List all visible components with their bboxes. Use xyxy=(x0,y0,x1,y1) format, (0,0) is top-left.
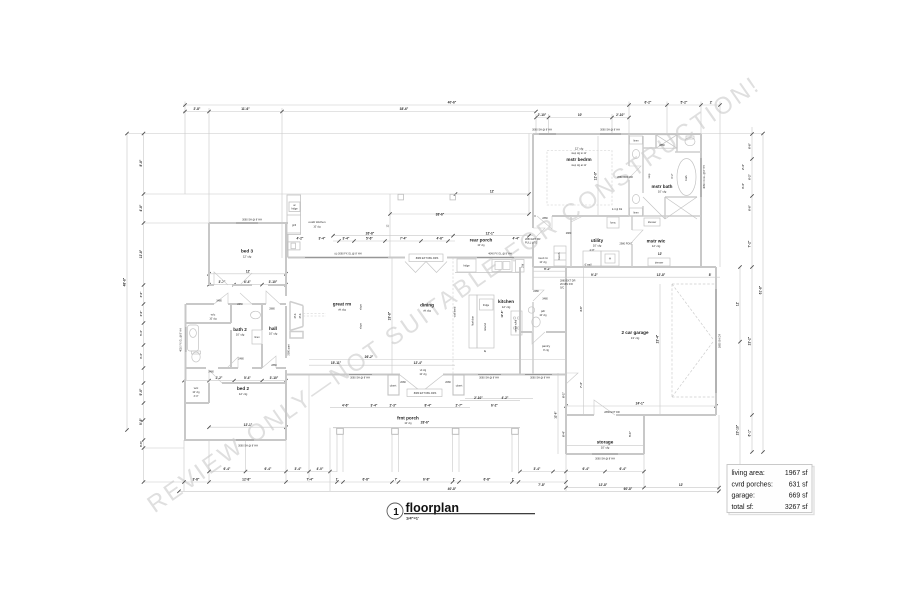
svg-text:12'-8": 12'-8" xyxy=(599,483,608,487)
dimension texts bottom xyxy=(193,467,684,491)
dresser wic top xyxy=(644,218,660,226)
range xyxy=(511,311,522,335)
entry closets xyxy=(388,375,464,395)
door hall top xyxy=(266,291,280,304)
svg-text:10' clg: 10' clg xyxy=(477,244,485,247)
svg-text:8': 8' xyxy=(709,273,712,277)
svg-text:(x) 3060 FX GL @ 8' HH: (x) 3060 FX GL @ 8' HH xyxy=(334,253,361,256)
svg-text:step clg at 11': step clg at 11' xyxy=(571,164,587,167)
svg-text:3060 SH @ 8' HH: 3060 SH @ 8' HH xyxy=(479,377,499,380)
glass wall xyxy=(643,197,665,219)
svg-text:fridge: fridge xyxy=(463,265,470,268)
svg-text:40'-8": 40'-8" xyxy=(448,487,457,491)
svg-text:2880: 2880 xyxy=(271,364,277,367)
svg-text:7': 7' xyxy=(395,478,398,482)
uc fridge box xyxy=(289,202,300,212)
svg-text:2480: 2480 xyxy=(237,303,243,306)
title circle xyxy=(387,503,403,519)
svg-text:grill: grill xyxy=(292,224,296,227)
svg-text:2'-4": 2'-4" xyxy=(741,163,745,170)
window master north 1 xyxy=(539,133,556,135)
svg-text:12': 12' xyxy=(490,190,495,194)
wall utility south / garage north xyxy=(533,266,716,268)
window storage south xyxy=(592,453,618,455)
door wc2 xyxy=(227,357,238,368)
sink master 1 xyxy=(632,150,639,159)
svg-text:12' clg: 12' clg xyxy=(239,392,248,396)
svg-text:10' clg: 10' clg xyxy=(269,332,278,336)
svg-text:23'-10": 23'-10" xyxy=(736,424,740,435)
svg-text:12'-1": 12'-1" xyxy=(244,423,253,427)
svg-text:10' clg: 10' clg xyxy=(593,244,602,248)
svg-text:pdr: pdr xyxy=(541,309,545,313)
utility appliances xyxy=(455,217,670,348)
furnace closet xyxy=(607,217,619,228)
right dim col outer xyxy=(762,134,764,453)
bottom extension lines xyxy=(183,440,185,491)
toilet master xyxy=(685,137,695,145)
svg-text:2880: 2880 xyxy=(566,232,572,235)
wall wc south xyxy=(186,322,231,324)
svg-text:6'-4": 6'-4" xyxy=(620,467,627,471)
svg-text:2080: 2080 xyxy=(445,381,451,384)
svg-text:5'-4": 5'-4" xyxy=(139,329,143,336)
svg-text:3'-4": 3'-4" xyxy=(534,467,541,471)
door utility xyxy=(571,216,583,222)
linen hall box xyxy=(252,330,262,344)
master bed interior dim xyxy=(597,136,599,216)
svg-text:7'-4": 7'-4" xyxy=(307,478,314,482)
svg-text:3'-10": 3'-10" xyxy=(269,280,278,284)
rear porch 12ft dim xyxy=(456,193,530,195)
svg-text:mstr wic: mstr wic xyxy=(647,239,666,244)
svg-text:2 car garage: 2 car garage xyxy=(621,330,649,335)
svg-text:range w/hd: range w/hd xyxy=(515,319,518,332)
svg-text:garage:: garage: xyxy=(732,493,755,500)
bottom row B right xyxy=(566,487,719,489)
watermark xyxy=(142,71,765,519)
svg-text:stop: stop xyxy=(648,173,651,178)
svg-text:5'-1": 5'-1" xyxy=(628,430,632,437)
door mudroom ext xyxy=(533,228,545,240)
area table shadow xyxy=(729,467,814,515)
wall front xyxy=(286,374,566,376)
svg-text:rear porch: rear porch xyxy=(470,238,493,243)
svg-text:flush bar: flush bar xyxy=(472,316,475,326)
svg-text:6'-2": 6'-2" xyxy=(491,403,498,407)
bed3 bottom dims xyxy=(209,284,286,286)
interior rotated dims xyxy=(388,171,660,437)
garage overhead door east xyxy=(715,289,717,393)
svg-text:4010 FX GL @ 8' HH: 4010 FX GL @ 8' HH xyxy=(180,328,183,352)
svg-text:40'-6": 40'-6" xyxy=(448,101,457,105)
bed2 width dim xyxy=(209,426,286,428)
door wc xyxy=(214,293,228,304)
svg-text:wall bend: wall bend xyxy=(454,306,457,317)
utility dims xyxy=(533,270,566,272)
svg-text:26'-8": 26'-8" xyxy=(366,231,375,235)
svg-text:12'-4": 12'-4" xyxy=(414,361,423,365)
wall master wing north xyxy=(533,133,701,135)
wall utility east / wic west xyxy=(631,216,633,267)
door pantry xyxy=(533,290,544,301)
svg-text:1967 sf: 1967 sf xyxy=(785,470,808,477)
svg-text:3060 SH @ 8' HH: 3060 SH @ 8' HH xyxy=(595,458,615,461)
great room dim xyxy=(391,258,393,375)
svg-text:15'-11": 15'-11" xyxy=(331,361,342,365)
window bed3 north xyxy=(236,222,258,224)
svg-text:kitchen: kitchen xyxy=(498,299,514,304)
window pantry front xyxy=(525,374,552,376)
sink bath2 xyxy=(251,311,261,319)
svg-text:2480: 2480 xyxy=(238,357,244,360)
svg-text:9'-6": 9'-6" xyxy=(139,418,143,425)
svg-text:9' clg: 9' clg xyxy=(543,349,549,352)
svg-text:10' clg: 10' clg xyxy=(209,318,217,321)
svg-text:4060 FX GL @ 8' HH: 4060 FX GL @ 8' HH xyxy=(703,165,706,189)
front porch slab line xyxy=(333,427,520,429)
svg-text:3060 SH @ 8' HH: 3060 SH @ 8' HH xyxy=(238,445,258,448)
svg-text:3'-4": 3'-4" xyxy=(319,237,326,241)
garage interior dims xyxy=(583,267,585,415)
svg-text:2880 EXT DR: 2880 EXT DR xyxy=(604,411,620,414)
svg-text:19'-8": 19'-8" xyxy=(388,311,392,320)
svg-text:2080: 2080 xyxy=(400,381,406,384)
bottom row A right xyxy=(520,471,644,473)
dimension texts left column (rotated) xyxy=(123,159,143,447)
window rear wall 2 xyxy=(477,257,514,259)
outdoor kitchen counter xyxy=(287,195,301,250)
wall bed3 north xyxy=(209,222,288,224)
svg-text:6'-1": 6'-1" xyxy=(748,429,752,436)
PLAN xyxy=(123,101,814,521)
svg-text:6'-4": 6'-4" xyxy=(244,280,251,284)
island xyxy=(469,295,477,348)
svg-text:3'-4": 3'-4" xyxy=(343,237,350,241)
svg-text:2'-10": 2'-10" xyxy=(616,113,625,117)
svg-text:step clg to 11': step clg to 11' xyxy=(571,152,587,155)
svg-text:3'-4": 3'-4" xyxy=(295,467,302,471)
door swings cluster xyxy=(209,166,643,415)
svg-text:10' clg: 10' clg xyxy=(539,261,547,264)
svg-text:2880: 2880 xyxy=(269,308,275,311)
kitchen top dims xyxy=(333,235,533,237)
svg-text:8080 EXT DBL DRS: 8080 EXT DBL DRS xyxy=(414,392,437,395)
svg-text:6'-4": 6'-4" xyxy=(562,430,566,437)
pdr toilet xyxy=(532,317,540,327)
svg-text:bed 2: bed 2 xyxy=(237,386,249,391)
door bath2 xyxy=(240,293,252,304)
tub bath2 xyxy=(188,325,199,351)
svg-text:2880: 2880 xyxy=(542,217,548,220)
svg-text:DW: DW xyxy=(522,263,525,268)
window rear wall 1 xyxy=(305,257,388,259)
left outer dim line xyxy=(126,134,128,431)
door pdr xyxy=(532,332,545,344)
svg-text:S/C: S/C xyxy=(560,287,564,290)
svg-text:24'-1": 24'-1" xyxy=(636,402,645,406)
svg-text:10' clg: 10' clg xyxy=(192,391,200,394)
bottom row A left xyxy=(209,471,337,473)
svg-text:utility: utility xyxy=(591,238,604,243)
dim line master top row3 xyxy=(536,117,629,119)
kitchen fridge xyxy=(457,259,476,272)
svg-text:4'-2": 4'-2" xyxy=(297,237,304,241)
svg-text:12'-8": 12'-8" xyxy=(139,249,143,258)
svg-text:3'-2": 3'-2" xyxy=(216,376,223,380)
svg-text:6'-4": 6'-4" xyxy=(224,467,231,471)
rear double doors xyxy=(405,262,447,273)
svg-text:w/c: w/c xyxy=(194,386,199,390)
wall pantry divider xyxy=(520,331,566,333)
svg-text:fridge: fridge xyxy=(483,304,490,307)
svg-text:6'-8": 6'-8" xyxy=(423,478,430,482)
room labels xyxy=(192,147,672,450)
wall bed3 south xyxy=(209,284,286,286)
svg-text:vlt clg: vlt clg xyxy=(338,308,346,312)
wall master vanity xyxy=(628,134,630,216)
svg-text:2880 BRK DR: 2880 BRK DR xyxy=(617,176,633,179)
svg-text:12': 12' xyxy=(679,483,684,487)
wall utility west xyxy=(570,216,572,267)
svg-text:6'-1": 6'-1" xyxy=(562,391,566,398)
wall storage east xyxy=(643,415,645,454)
svg-text:7'-8": 7'-8" xyxy=(538,483,545,487)
svg-text:6'-4": 6'-4" xyxy=(265,467,272,471)
svg-text:48'-8": 48'-8" xyxy=(123,277,127,286)
svg-text:pantry: pantry xyxy=(542,344,551,348)
svg-text:linen: linen xyxy=(254,336,260,339)
svg-text:12'-8": 12'-8" xyxy=(500,310,504,318)
wall bath south xyxy=(629,215,701,217)
svg-text:floorplan: floorplan xyxy=(406,501,459,515)
svg-text:1: 1 xyxy=(393,507,399,518)
wall main rear xyxy=(288,257,533,259)
rotated spec labels xyxy=(180,165,722,355)
wall bath divider xyxy=(643,134,656,148)
wall pantry west xyxy=(532,267,534,375)
svg-text:mstr bath: mstr bath xyxy=(652,184,673,189)
sink master 2 xyxy=(632,195,639,204)
svg-text:2980 POKT: 2980 POKT xyxy=(619,243,633,246)
svg-text:bed 3: bed 3 xyxy=(241,249,253,254)
door master bedroom xyxy=(537,216,552,229)
svg-text:4'-0": 4'-0" xyxy=(317,467,324,471)
roof line upper xyxy=(127,133,533,135)
svg-text:2': 2' xyxy=(710,101,713,105)
svg-text:6'-2": 6'-2" xyxy=(645,101,652,105)
svg-text:3480: 3480 xyxy=(542,298,548,301)
svg-text:12' clg: 12' clg xyxy=(243,255,252,259)
door garage rear xyxy=(594,400,615,415)
svg-text:10' clg: 10' clg xyxy=(404,422,412,425)
dimension lines xyxy=(127,102,763,492)
wall bend dashed line xyxy=(303,258,453,375)
windows xyxy=(186,134,716,454)
svg-text:4'-2": 4'-2" xyxy=(502,396,509,400)
rear patio posts xyxy=(398,194,456,200)
svg-text:slope: slope xyxy=(360,322,363,329)
kitchen counter line xyxy=(455,272,520,274)
svg-text:7'-4": 7'-4" xyxy=(400,237,407,241)
svg-text:1680 OH DR: 1680 OH DR xyxy=(719,334,722,349)
wall cluster south xyxy=(186,367,286,369)
svg-text:60'-8": 60'-8" xyxy=(624,487,633,491)
island fridge xyxy=(480,299,494,310)
door bed3 b xyxy=(240,273,252,285)
svg-text:6'-4": 6'-4" xyxy=(583,467,590,471)
svg-text:3'-4": 3'-4" xyxy=(139,352,143,359)
exterior walls xyxy=(184,134,716,454)
outdoor sink cell xyxy=(288,242,301,250)
wall bed2 wc south xyxy=(184,402,209,404)
svg-text:12': 12' xyxy=(736,302,740,307)
svg-text:1': 1' xyxy=(512,478,515,482)
svg-text:3060 SH @ 8' HH: 3060 SH @ 8' HH xyxy=(530,377,550,380)
svg-text:vlt clg: vlt clg xyxy=(420,369,427,372)
window and door spec labels xyxy=(208,129,665,461)
svg-text:13' clg: 13' clg xyxy=(631,336,640,340)
window front 1 xyxy=(349,374,372,376)
svg-text:23'-2": 23'-2" xyxy=(748,336,752,345)
storage dims xyxy=(566,445,644,447)
svg-text:2'-8": 2'-8" xyxy=(194,107,201,111)
svg-text:bath 2: bath 2 xyxy=(233,327,247,332)
door bed2 xyxy=(209,370,222,383)
tv niche great rm xyxy=(290,302,303,331)
wall garage south xyxy=(566,414,716,416)
window master north 2 xyxy=(600,133,621,135)
bath fixtures xyxy=(188,135,698,362)
svg-text:vlt clg: vlt clg xyxy=(423,309,431,313)
svg-text:outdr kitchen: outdr kitchen xyxy=(308,220,326,224)
svg-text:3'-10": 3'-10" xyxy=(270,376,279,380)
svg-text:dresser: dresser xyxy=(648,221,657,224)
wall master bedroom south xyxy=(533,215,629,217)
svg-text:10' clg: 10' clg xyxy=(539,314,547,317)
wall bed2 wc east xyxy=(208,383,210,403)
svg-text:island: island xyxy=(483,323,487,331)
svg-text:12'-8": 12'-8" xyxy=(657,273,666,277)
svg-text:great rm: great rm xyxy=(333,302,351,307)
svg-text:1': 1' xyxy=(453,478,456,482)
window front 2 xyxy=(478,374,501,376)
door hall-great xyxy=(262,356,276,368)
svg-text:1': 1' xyxy=(336,478,339,482)
garage width dim xyxy=(566,405,716,407)
svg-text:2'-10": 2'-10" xyxy=(474,396,483,400)
svg-text:12' clg: 12' clg xyxy=(652,244,661,248)
svg-text:12'-8": 12'-8" xyxy=(242,478,251,482)
svg-text:26'-2": 26'-2" xyxy=(365,355,374,359)
svg-text:closet: closet xyxy=(390,385,397,388)
svg-text:10' clg: 10' clg xyxy=(419,373,427,376)
wall closet row top xyxy=(571,215,629,217)
wall bed2 south xyxy=(184,439,286,441)
svg-text:3267 sf: 3267 sf xyxy=(785,504,808,511)
svg-text:12': 12' xyxy=(246,269,251,273)
svg-text:11'-6": 11'-6" xyxy=(241,107,250,111)
dimension texts right column (rotated) xyxy=(736,142,763,436)
wall shower bottom xyxy=(665,197,697,219)
svg-text:2480: 2480 xyxy=(533,290,539,293)
svg-text:7'-2": 7'-2" xyxy=(748,240,752,247)
svg-text:4'-6": 4'-6" xyxy=(342,403,349,407)
window bed2 south xyxy=(236,439,254,441)
wall wc east xyxy=(230,304,232,368)
wall outdoor kitchen west below counter xyxy=(287,234,289,257)
svg-text:2880 EXT DR: 2880 EXT DR xyxy=(560,280,576,283)
wall master wing west xyxy=(532,134,534,216)
svg-text:2'-10": 2'-10" xyxy=(538,113,547,117)
tub master xyxy=(677,159,696,196)
dryer with dot xyxy=(601,251,619,266)
svg-text:mstr bedrm: mstr bedrm xyxy=(566,157,591,162)
8080 ext dbl drs boxed label front xyxy=(407,389,442,397)
mud bench xyxy=(554,246,566,266)
tick marks xyxy=(125,103,764,493)
dim line top overall xyxy=(183,104,720,106)
svg-text:furnc: furnc xyxy=(610,222,616,225)
area table rows xyxy=(732,470,808,511)
svg-text:2'-3": 2'-3" xyxy=(390,403,397,407)
svg-text:9'-6": 9'-6" xyxy=(139,388,143,395)
svg-text:38'-6": 38'-6" xyxy=(436,213,445,217)
svg-text:12' clg: 12' clg xyxy=(502,305,511,309)
wall kitchen east xyxy=(519,267,521,375)
svg-text:5'-4": 5'-4" xyxy=(244,376,251,380)
master bedroom ceiling step dashed xyxy=(547,151,612,206)
wall bed3 west xyxy=(208,223,210,285)
pdr sink xyxy=(528,307,534,313)
svg-text:linen: linen xyxy=(633,140,639,143)
front porch posts xyxy=(337,428,519,434)
rear porch 38-6 dim xyxy=(390,213,529,215)
svg-text:4'-4": 4'-4" xyxy=(513,237,520,241)
svg-text:6'-6": 6'-6" xyxy=(748,204,752,211)
washer xyxy=(583,251,601,266)
svg-text:10': 10' xyxy=(578,113,583,117)
wall mudroom west xyxy=(532,216,534,267)
multiline spec labels xyxy=(525,238,576,290)
svg-text:10' clg: 10' clg xyxy=(236,333,245,337)
toilet bath2 xyxy=(192,352,200,362)
svg-text:2-4 gl blk: 2-4 gl blk xyxy=(612,208,623,211)
svg-text:631 sf: 631 sf xyxy=(789,481,808,488)
svg-text:6'-6": 6'-6" xyxy=(748,142,752,149)
svg-text:4'-6": 4'-6" xyxy=(579,305,583,312)
svg-text:4': 4' xyxy=(483,350,487,352)
shower master bottom with X xyxy=(665,197,697,219)
svg-text:12'-0": 12'-0" xyxy=(594,171,598,180)
svg-text:10' clg: 10' clg xyxy=(313,226,321,229)
door master bath xyxy=(629,166,641,178)
svg-text:3'-0": 3'-0" xyxy=(139,291,143,298)
linen box master top xyxy=(630,136,643,144)
svg-text:hall: hall xyxy=(269,326,277,331)
svg-text:6'-2": 6'-2" xyxy=(671,173,674,178)
wall west jog xyxy=(185,304,187,380)
svg-text:9'-2": 9'-2" xyxy=(591,273,598,277)
wall garage east xyxy=(715,267,717,415)
wall master vanity back xyxy=(642,136,644,216)
svg-text:12'-8": 12'-8" xyxy=(554,411,558,419)
bottom row C overall xyxy=(179,490,719,492)
svg-text:4'-8": 4'-8" xyxy=(139,204,143,211)
wall bed2 north xyxy=(222,382,286,384)
roof line rear patio xyxy=(144,193,529,195)
svg-text:23'-4": 23'-4" xyxy=(656,334,660,343)
